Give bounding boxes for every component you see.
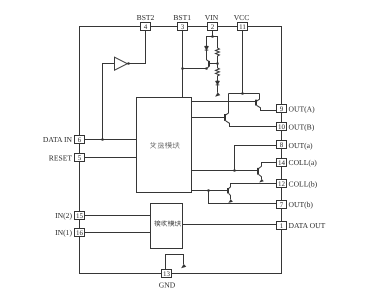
svg-text:15: 15 [76, 212, 84, 220]
svg-text:IN(2): IN(2) [55, 211, 72, 220]
svg-text:OUT(A): OUT(A) [289, 105, 316, 114]
svg-text:10: 10 [278, 123, 286, 131]
svg-text:COLL(b): COLL(b) [289, 180, 318, 189]
svg-text:BST2: BST2 [137, 13, 155, 22]
svg-text:1: 1 [280, 222, 284, 230]
svg-text:BST1: BST1 [173, 13, 191, 22]
svg-text:5: 5 [78, 154, 82, 162]
svg-text:OUT(b): OUT(b) [289, 200, 314, 209]
svg-text:9: 9 [280, 105, 284, 113]
svg-text:GND: GND [159, 281, 176, 290]
svg-text:DATA IN: DATA IN [43, 135, 73, 144]
svg-text:OUT(a): OUT(a) [289, 141, 314, 150]
svg-text:11: 11 [239, 23, 246, 31]
svg-text:RESET: RESET [49, 154, 73, 163]
svg-text:13: 13 [163, 270, 171, 278]
svg-text:VIN: VIN [205, 13, 219, 22]
svg-text:12: 12 [278, 180, 286, 188]
svg-text:4: 4 [144, 23, 148, 31]
svg-text:16: 16 [76, 229, 84, 237]
svg-text:COLL(a): COLL(a) [289, 158, 318, 167]
svg-text:7: 7 [280, 201, 284, 209]
svg-text:OUT(B): OUT(B) [289, 123, 315, 132]
svg-text:8: 8 [280, 141, 284, 149]
svg-text:3: 3 [181, 23, 185, 31]
svg-text:2: 2 [211, 23, 215, 31]
svg-text:VCC: VCC [234, 13, 250, 22]
svg-text:14: 14 [278, 159, 286, 167]
svg-text:IN(1): IN(1) [55, 228, 72, 237]
svg-text:6: 6 [78, 136, 82, 144]
svg-text:DATA OUT: DATA OUT [289, 221, 326, 230]
